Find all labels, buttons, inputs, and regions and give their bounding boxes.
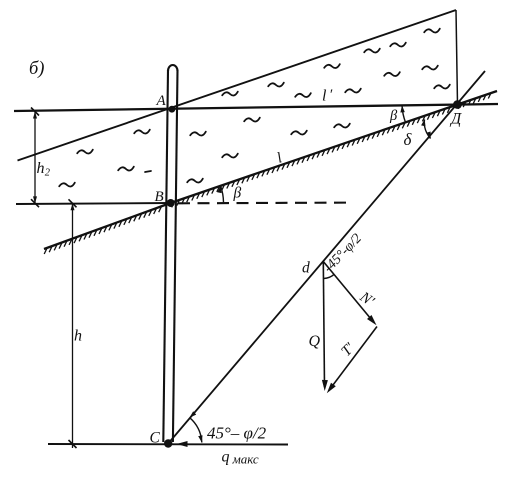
angle arc 45-phi/2 at C [190,418,202,443]
svg-text:l: l [322,88,327,105]
wire right vertical boundary above D [456,10,458,105]
force vector T prime [330,327,377,390]
water tildes lower band [59,118,350,187]
node D [453,100,462,109]
angle arc beta at B [221,186,224,203]
arrow on base line pointing to C [177,441,188,447]
wire B level solid line [16,203,171,204]
ground hatching right of D [458,93,491,109]
node A [169,106,176,113]
force vector N prime [323,262,373,323]
wire slip plane line C-d-D [168,71,485,444]
wire sloped water surface line through A [18,10,457,161]
svg-text:C: C [150,430,161,447]
wire B level dashed line [178,202,350,205]
svg-text:B: B [155,189,164,205]
svg-text:δ: δ [404,130,413,149]
svg-text:β: β [233,185,242,202]
wire bottom base line [48,443,288,446]
water tildes upper wedge [222,29,450,97]
pile wall right edge [173,70,178,442]
svg-text:h: h [74,328,82,345]
node C [164,439,172,447]
svg-text:q: q [222,449,230,466]
svg-text:Q: Q [309,333,321,350]
svg-text:б): б) [29,59,44,79]
angle arc at d [324,274,335,278]
svg-text:45°– φ/2: 45°– φ/2 [207,424,267,443]
svg-text:A: A [156,93,167,109]
dimension line h [72,203,74,448]
ground hatching B to D [172,107,451,207]
angle arc beta at D [402,105,406,122]
svg-text:2: 2 [45,168,51,179]
pile rounded top cap [168,65,178,71]
angle arc delta at D [424,120,430,139]
node B [167,199,175,207]
ground hatching left of B [44,206,161,254]
svg-text:Д: Д [449,111,462,128]
pile wall left edge [163,70,168,442]
dimension line h2 [34,112,36,204]
force vector Q [323,262,324,388]
svg-text:h: h [37,160,45,177]
svg-text:d: d [302,260,310,277]
svg-text:макс: макс [232,452,259,467]
wire ground surface line l through B and D [44,91,497,249]
wire top horizontal water level line through A [14,104,498,111]
svg-text:β: β [389,108,398,124]
